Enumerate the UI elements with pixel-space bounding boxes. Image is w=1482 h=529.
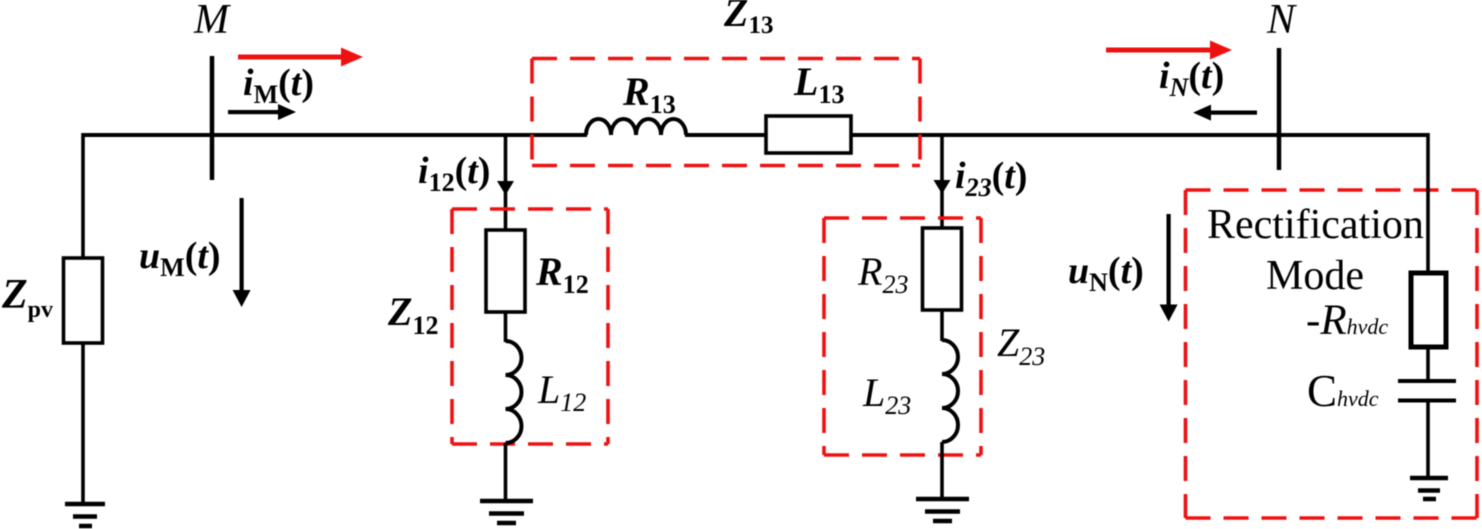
inductor R13 (4 humps on main wire) bbox=[586, 119, 686, 135]
wire: -Rhvdc to capacitor bbox=[1426, 347, 1430, 381]
dashed box Z12 bbox=[452, 209, 608, 444]
wire: left drop from bus to Zpv bbox=[81, 133, 85, 259]
node M (bus bar) bbox=[210, 56, 215, 180]
svg-text:Mode: Mode bbox=[1266, 253, 1364, 299]
wire: Zpv to ground bbox=[81, 343, 85, 504]
black current arrow iN (pointing left) bbox=[1193, 105, 1257, 121]
ground (below Chvdc) bbox=[1410, 478, 1448, 499]
svg-text:N: N bbox=[1266, 0, 1297, 43]
node 1 junction / wire: drop to Z12 branch bbox=[504, 135, 508, 231]
black current arrow i23 (arrowhead on branch wire) bbox=[934, 180, 951, 194]
ground (below L12) bbox=[480, 501, 533, 523]
wire: L12 to ground bbox=[504, 443, 508, 501]
red power-flow arrow at M bbox=[238, 48, 363, 67]
wire: main horizontal bus, M side to R13 bbox=[83, 133, 587, 137]
wire: R12 to L12 bbox=[504, 312, 508, 342]
dashed box Rectification Mode bbox=[1186, 190, 1478, 518]
black current arrow i12 (arrowhead on branch wire) bbox=[497, 181, 514, 195]
node 2 junction / wire: drop to Z23 branch bbox=[940, 135, 944, 229]
black current arrow iM bbox=[228, 104, 296, 120]
wire: main horizontal bus, R13 to right corner bbox=[685, 133, 1428, 137]
capacitor Chvdc bbox=[1398, 381, 1456, 401]
dashed box Z23 bbox=[824, 218, 981, 455]
resistor L13 (impedance box on main wire) bbox=[766, 116, 851, 153]
svg-text:iN(t): iN(t) bbox=[1159, 55, 1224, 102]
dashed box Z13 bbox=[532, 59, 920, 166]
resistor R23 bbox=[923, 228, 962, 310]
wire: R23 to L23 bbox=[940, 310, 944, 341]
black voltage arrow uN (downward) bbox=[1160, 214, 1178, 322]
svg-text:M: M bbox=[193, 0, 231, 43]
black voltage arrow uM (downward) bbox=[233, 198, 251, 307]
ground (below Zpv) bbox=[65, 504, 105, 526]
wire: L23 to ground bbox=[940, 442, 944, 499]
node N (bus bar) bbox=[1277, 48, 1282, 170]
inductor L23 (3 humps bulging right) bbox=[942, 340, 958, 442]
resistor -Rhvdc (negative resistance box) bbox=[1411, 273, 1446, 347]
svg-text:Rectification: Rectification bbox=[1207, 202, 1424, 248]
wire: right drop from bus corner to -Rhvdc bbox=[1426, 133, 1430, 274]
inductor L12 (3 humps bulging right) bbox=[506, 341, 522, 443]
ground (below L23) bbox=[916, 499, 969, 521]
red power-flow arrow at N bbox=[1106, 41, 1232, 60]
resistor Zpv (impedance box) bbox=[64, 258, 103, 343]
resistor R12 bbox=[486, 230, 525, 312]
wire: capacitor to ground bbox=[1426, 400, 1430, 478]
